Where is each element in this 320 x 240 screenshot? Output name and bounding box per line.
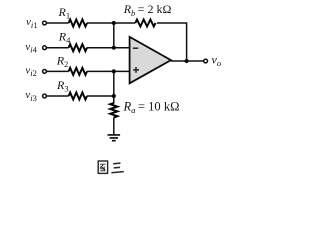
wire op-amp output (171, 60, 204, 62)
resistor R1 (69, 20, 87, 27)
node v_i1 input terminal (43, 21, 47, 25)
junction dot node A top (112, 21, 116, 25)
wire v_i3 to R3 (47, 95, 69, 97)
resistor Ra (vertical) (110, 103, 117, 118)
svg-text:Rb = 2 kΩ: Rb = 2 kΩ (123, 2, 172, 18)
junction dot node A bottom (112, 46, 116, 50)
wire Rb to feedback corner (157, 23, 187, 61)
junction dot node B top (112, 69, 116, 73)
wire v_i2 to R2 (47, 70, 69, 72)
svg-text:Ra= 10kΩ: Ra= 10kΩ (123, 100, 180, 116)
wire R3 to node B (87, 95, 114, 97)
wire v_i1 to R1 (47, 22, 69, 24)
wire node A to Rb (114, 22, 136, 24)
junction dot output node (185, 59, 189, 63)
wire R2 to op-amp non-inverting input (87, 70, 130, 72)
wire Ra to ground (113, 118, 115, 135)
junction dot node B bottom (112, 94, 116, 98)
op-amp U1 (130, 37, 171, 83)
node v_i2 input terminal (43, 70, 47, 74)
wire bus node A: R1 row down to inverting input row (113, 23, 115, 48)
wire R1 to node A (87, 22, 114, 24)
caption figure 3 (CJK) char san (111, 163, 123, 173)
resistor R3 (69, 93, 87, 100)
resistor R4 (69, 44, 87, 51)
wire bus node B: non-inverting row down through R3 row to Ra (113, 71, 115, 103)
wire R4 to op-amp inverting input (87, 47, 130, 49)
caption figure 3 (CJK) char tu (98, 161, 107, 173)
node v_i4 input terminal (43, 46, 47, 50)
op-amp U1 plus sign (133, 67, 139, 73)
node v_i3 input terminal (43, 94, 47, 98)
node v_o output terminal (204, 59, 208, 63)
resistor Rb (135, 20, 155, 27)
op-amp U1 minus sign (133, 47, 138, 49)
ground (108, 135, 121, 141)
wire v_i4 to R4 (47, 47, 69, 49)
resistor R2 (69, 68, 87, 75)
